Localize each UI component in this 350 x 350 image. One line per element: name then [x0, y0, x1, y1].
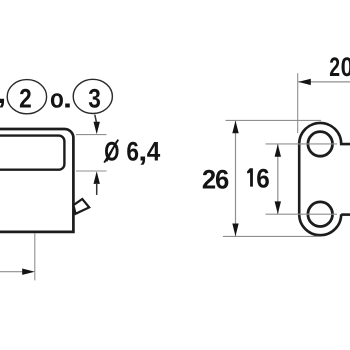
arrowhead 26 up — [232, 121, 238, 134]
dimension line 16 — [277, 144, 279, 214]
arrowhead 20 left — [298, 79, 311, 85]
dimension stem below slot — [96, 183, 98, 195]
svg-text:.: . — [63, 84, 72, 114]
arrowhead 26 down — [232, 224, 238, 237]
diameter slash extension — [104, 140, 118, 163]
svg-text:2: 2 — [19, 83, 32, 113]
extension line 16 bottom (through hole) — [266, 213, 338, 215]
latch tab on right edge — [73, 199, 89, 214]
extension line 16 top (through hole) — [266, 143, 338, 145]
bottom hole — [308, 202, 333, 227]
arrowhead down to slot top — [94, 122, 100, 135]
flange outline (right view) — [299, 123, 350, 235]
dimension line from left edge — [0, 271, 23, 273]
leader line from balloon 3 — [95, 115, 97, 124]
dimension line 26 — [235, 121, 237, 236]
extension line 26 bottom — [223, 235, 320, 237]
svg-text:6: 6 — [256, 164, 270, 193]
svg-text:6: 6 — [126, 137, 139, 167]
arrowhead 16 up — [275, 144, 281, 157]
svg-text:0: 0 — [341, 52, 350, 82]
flange bottom-right tangent edge — [341, 213, 350, 216]
svg-text:o: o — [50, 83, 64, 113]
dimension text 16 — [247, 168, 253, 186]
top hole — [308, 132, 333, 157]
extension line 26 top — [226, 119, 322, 121]
body outline (left part view) — [0, 129, 73, 232]
arrowhead pointing right — [22, 269, 35, 275]
callout balloon circle 2 — [7, 80, 46, 114]
extension line below body — [34, 233, 36, 280]
svg-text:,: , — [0, 77, 6, 109]
arrowhead 16 down — [275, 201, 281, 214]
svg-text:,: , — [138, 137, 147, 167]
slot rounded rectangle — [0, 136, 64, 170]
extension line slot bottom — [76, 170, 107, 172]
svg-text:2: 2 — [329, 52, 340, 82]
svg-text:26: 26 — [202, 164, 229, 195]
dimension line 20 — [298, 81, 350, 83]
svg-text:4: 4 — [147, 137, 161, 166]
dimension arrow up at slot bottom — [94, 171, 100, 184]
callout balloon circle 3 — [73, 79, 112, 113]
extension line slot top — [76, 134, 107, 136]
extension line 20 vertical — [297, 73, 299, 133]
svg-text:3: 3 — [88, 83, 101, 113]
